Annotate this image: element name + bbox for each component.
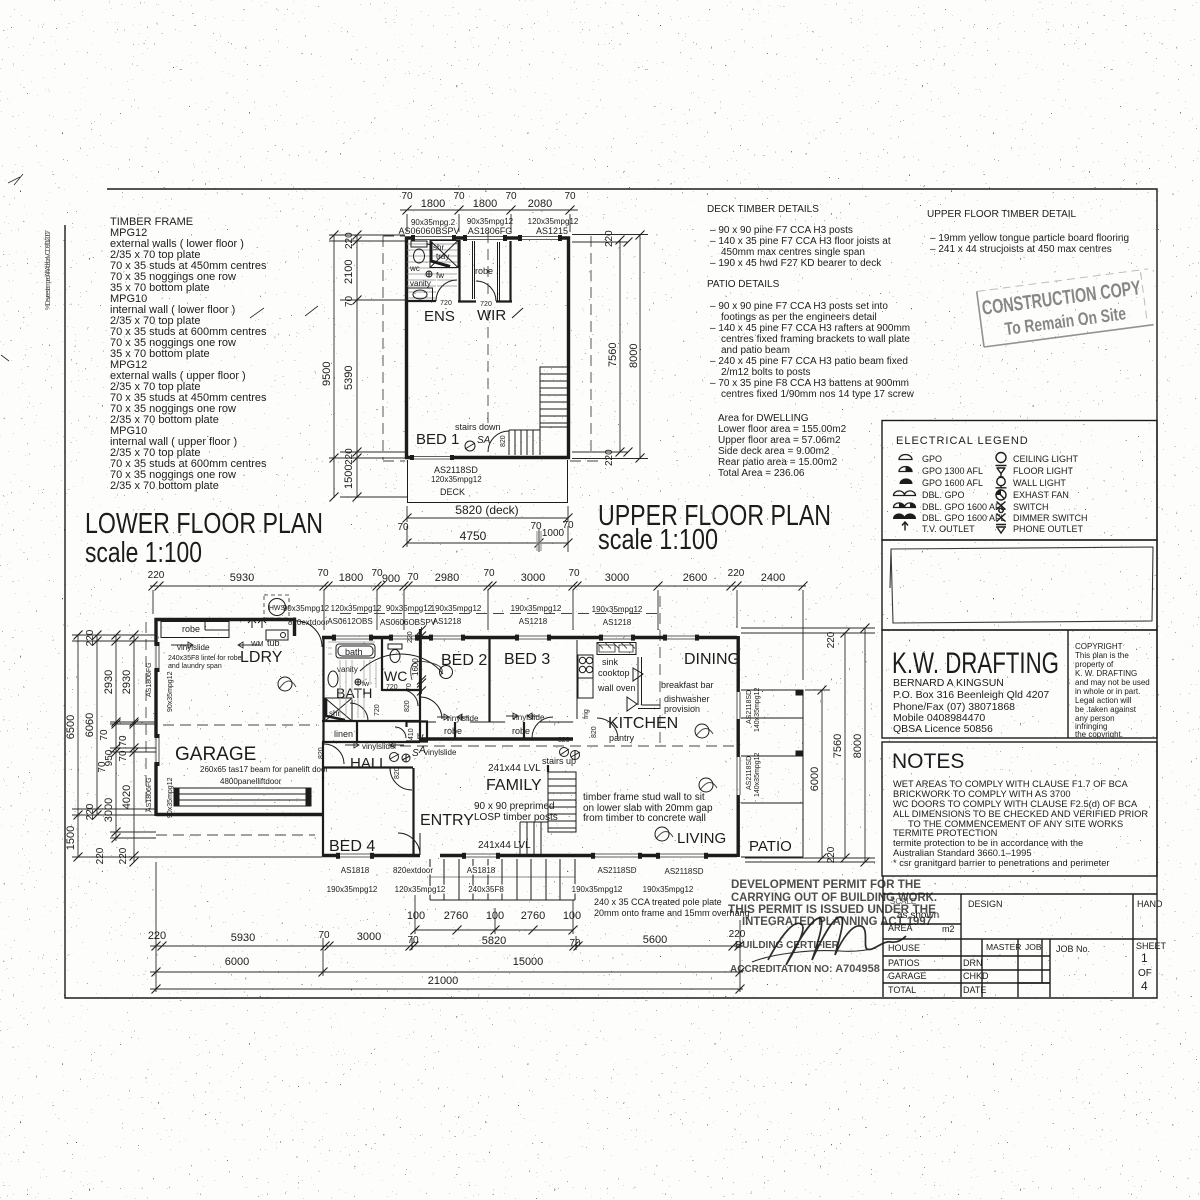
ldry light — [278, 677, 292, 691]
NOTES box — [882, 742, 1157, 876]
bath shr — [325, 698, 352, 721]
br closet — [406, 722, 428, 742]
bed2 bed3 lights — [440, 666, 453, 679]
window labels above wall — [411, 217, 579, 227]
bottom wall openings — [336, 852, 708, 858]
porch steps below — [430, 859, 575, 900]
bath/wc block — [322, 637, 324, 741]
patio details text — [707, 279, 915, 400]
island bench — [638, 657, 660, 709]
bath floor hatch — [328, 642, 376, 718]
bottom labels — [327, 866, 704, 894]
left wall windows — [154, 642, 160, 766]
legend left labels — [922, 454, 1006, 534]
development permit stamp — [728, 877, 937, 975]
bath doors — [350, 703, 368, 721]
legend left column symbols — [894, 455, 916, 531]
dashed eaves / projection lines — [340, 613, 660, 615]
bed2 door — [420, 697, 442, 719]
bottom dims — [407, 895, 581, 935]
ldry robe — [161, 622, 229, 638]
left dims cluster — [65, 629, 322, 866]
stray mark top-left — [8, 174, 23, 185]
hall doors/arcs — [324, 744, 344, 764]
centerline dashed — [487, 232, 489, 430]
construction copy stamp — [977, 269, 1156, 347]
linen — [356, 722, 358, 742]
upper floor timber detail text — [927, 209, 1129, 255]
stairs upper flight — [509, 367, 568, 455]
window label rows — [283, 604, 643, 614]
signature — [752, 917, 906, 965]
ENS toilet — [411, 241, 432, 263]
leader curve — [360, 654, 443, 674]
WIR robes — [473, 241, 475, 299]
WIR south wall + door — [458, 300, 512, 302]
right wall sliding doors — [735, 692, 741, 795]
garage/ldry outer walls — [293, 618, 296, 637]
legend right labels — [1013, 454, 1088, 534]
right dims — [741, 624, 875, 867]
deck — [408, 460, 568, 503]
deck dims — [407, 506, 568, 522]
top dimension line — [400, 191, 578, 232]
legend right column symbols — [996, 453, 1007, 534]
dashed roof outline — [382, 236, 384, 460]
right dims — [572, 230, 648, 466]
page border — [65, 189, 1157, 998]
wc — [388, 644, 402, 663]
ENS shower — [430, 241, 458, 268]
TIMBER FRAME text block — [110, 216, 318, 492]
bed3 door — [532, 717, 553, 738]
entry door arc — [398, 833, 420, 855]
ENS bathroom hatch — [407, 244, 457, 298]
HWS — [264, 595, 289, 618]
left dims — [321, 231, 407, 502]
main top wall — [322, 636, 737, 639]
top wall windows — [332, 634, 699, 640]
stairs door arc — [488, 431, 509, 452]
ENS south wall + door — [405, 300, 436, 302]
electrical legend box — [882, 421, 1157, 541]
outer walls — [407, 238, 569, 458]
area for dwelling text — [718, 413, 847, 479]
ENS fw — [426, 271, 432, 277]
bottom wall windows — [410, 455, 454, 460]
ldry fixtures: wm + tub — [248, 619, 288, 640]
stray mark left-mid — [1, 355, 9, 361]
right wall — [737, 636, 740, 857]
sketch box section — [882, 540, 1157, 630]
ENS/WIR dividing wall — [458, 240, 460, 301]
hall SA symbols — [390, 753, 399, 762]
mini dim at wc wall — [421, 627, 423, 694]
bed4 — [322, 766, 413, 768]
windows in top wall (white gaps + thin lines) — [411, 235, 562, 241]
bottom title table — [883, 876, 1157, 997]
bottom wall — [322, 854, 737, 857]
patio structures — [741, 690, 803, 857]
ldry door arc — [296, 621, 322, 647]
kitchen — [576, 640, 578, 719]
beds divider & robes — [488, 637, 490, 722]
timber frame note — [583, 792, 713, 824]
top dimension line — [148, 568, 808, 680]
family door from kitchen — [597, 718, 618, 739]
ENS vanity — [408, 288, 433, 301]
K.W. DRAFTING box — [882, 630, 1157, 738]
deck timber details text — [707, 204, 891, 269]
bath fw — [355, 679, 361, 685]
